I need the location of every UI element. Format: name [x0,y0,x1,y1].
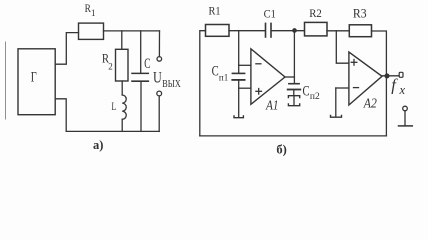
resistor R2 [116,49,129,81]
svg-text:2: 2 [108,61,113,71]
wire R1 to C1 [229,30,265,32]
svg-text:R2: R2 [309,6,322,20]
terminal bottom (a) [157,91,162,96]
svg-text:а): а) [93,138,103,152]
capacitor Cp2 [288,84,301,90]
label fx [391,76,405,98]
wire A1 plus input [239,87,251,89]
wire bottom terminal down [158,96,160,131]
wire left rail b [200,31,206,136]
wire A2 output [382,75,399,77]
svg-text:С: С [303,83,310,99]
op-amp A2 [349,52,382,105]
svg-text:А2: А2 [363,95,377,110]
label Cp2 [303,83,320,102]
capacitor C1 [266,23,272,37]
svg-text:x: x [399,83,406,97]
svg-text:ВЫХ: ВЫХ [162,79,181,90]
svg-text:1: 1 [91,8,96,18]
scan artifact line left edge [5,42,7,119]
resistor R2 (b) [305,22,328,36]
label R1 (a) [85,1,96,18]
ground (common terminal) [399,125,413,127]
wire R2 to coil [121,81,123,95]
wire branch to R2 [121,31,123,49]
minus sign A2 [354,87,359,89]
wire C1 to R2 [272,30,305,32]
wire rail corner down to top terminal [158,31,160,57]
resistor R3 [349,25,371,37]
wire bottom rail b [200,135,387,137]
wire Cp1 to A1 plus / ground [238,80,240,117]
plus sign A1 [256,89,262,95]
svg-text:С: С [212,63,219,79]
resistor R1 (b) [206,25,230,37]
wire branch down to A2 plus input [336,31,349,63]
wire coil to bottom rail [121,119,123,131]
wire branch down to A1 inverting input [238,31,240,66]
terminal fx [399,72,403,77]
resistor R1 (circuit a) [79,23,104,39]
wire common terminal stem [404,111,406,125]
svg-text:п1: п1 [219,73,228,83]
svg-text:А1: А1 [265,98,278,113]
svg-text:R: R [85,1,91,15]
wire R3 to right corner down through output [372,31,387,136]
terminal common (circle) [403,106,408,111]
node C1/R2 junction dot [293,29,296,32]
svg-text:f: f [391,76,398,95]
wire A2 minus input [336,87,349,89]
capacitor C (a) [132,73,148,81]
wire A1 output [285,76,294,78]
inductor L [122,95,126,119]
svg-text:R1: R1 [209,4,221,18]
svg-text:б): б) [276,142,286,156]
wire R2 to R3 [327,30,349,32]
wire C to bottom rail [140,81,142,131]
terminal top (a) [157,57,162,62]
wire Cp2 down [293,90,295,96]
svg-text:C1: C1 [264,7,276,21]
wire top rail a [104,30,160,32]
svg-text:R3: R3 [353,7,367,21]
plus sign A2 [351,60,357,66]
generator box [18,49,55,115]
ground (Cp2, double bar) [288,96,299,106]
svg-text:C: C [144,56,150,72]
wire A1 minus input [239,64,251,66]
svg-text:U: U [153,69,162,86]
label R2 (a) [102,52,113,72]
wire junction down to Cp2 [293,31,295,83]
capacitor Cp1 [232,65,244,80]
svg-text:Г: Г [31,69,37,85]
wire bottom rail a [66,130,159,132]
wire gen bottom [55,99,66,132]
wire A2 minus to ground [335,88,337,116]
label Cp1 [212,63,229,82]
node A2 output dot [385,74,389,78]
svg-text:п2: п2 [310,92,320,102]
ground (A1 input) [234,116,243,118]
op-amp A1 [251,49,285,105]
wire branch to C [140,31,142,73]
minus sign A1 [256,63,261,65]
wire gen top to rail [55,33,78,65]
svg-text:L: L [112,99,117,113]
ground (A2 input) [331,115,342,117]
label U_vyx [153,69,181,90]
